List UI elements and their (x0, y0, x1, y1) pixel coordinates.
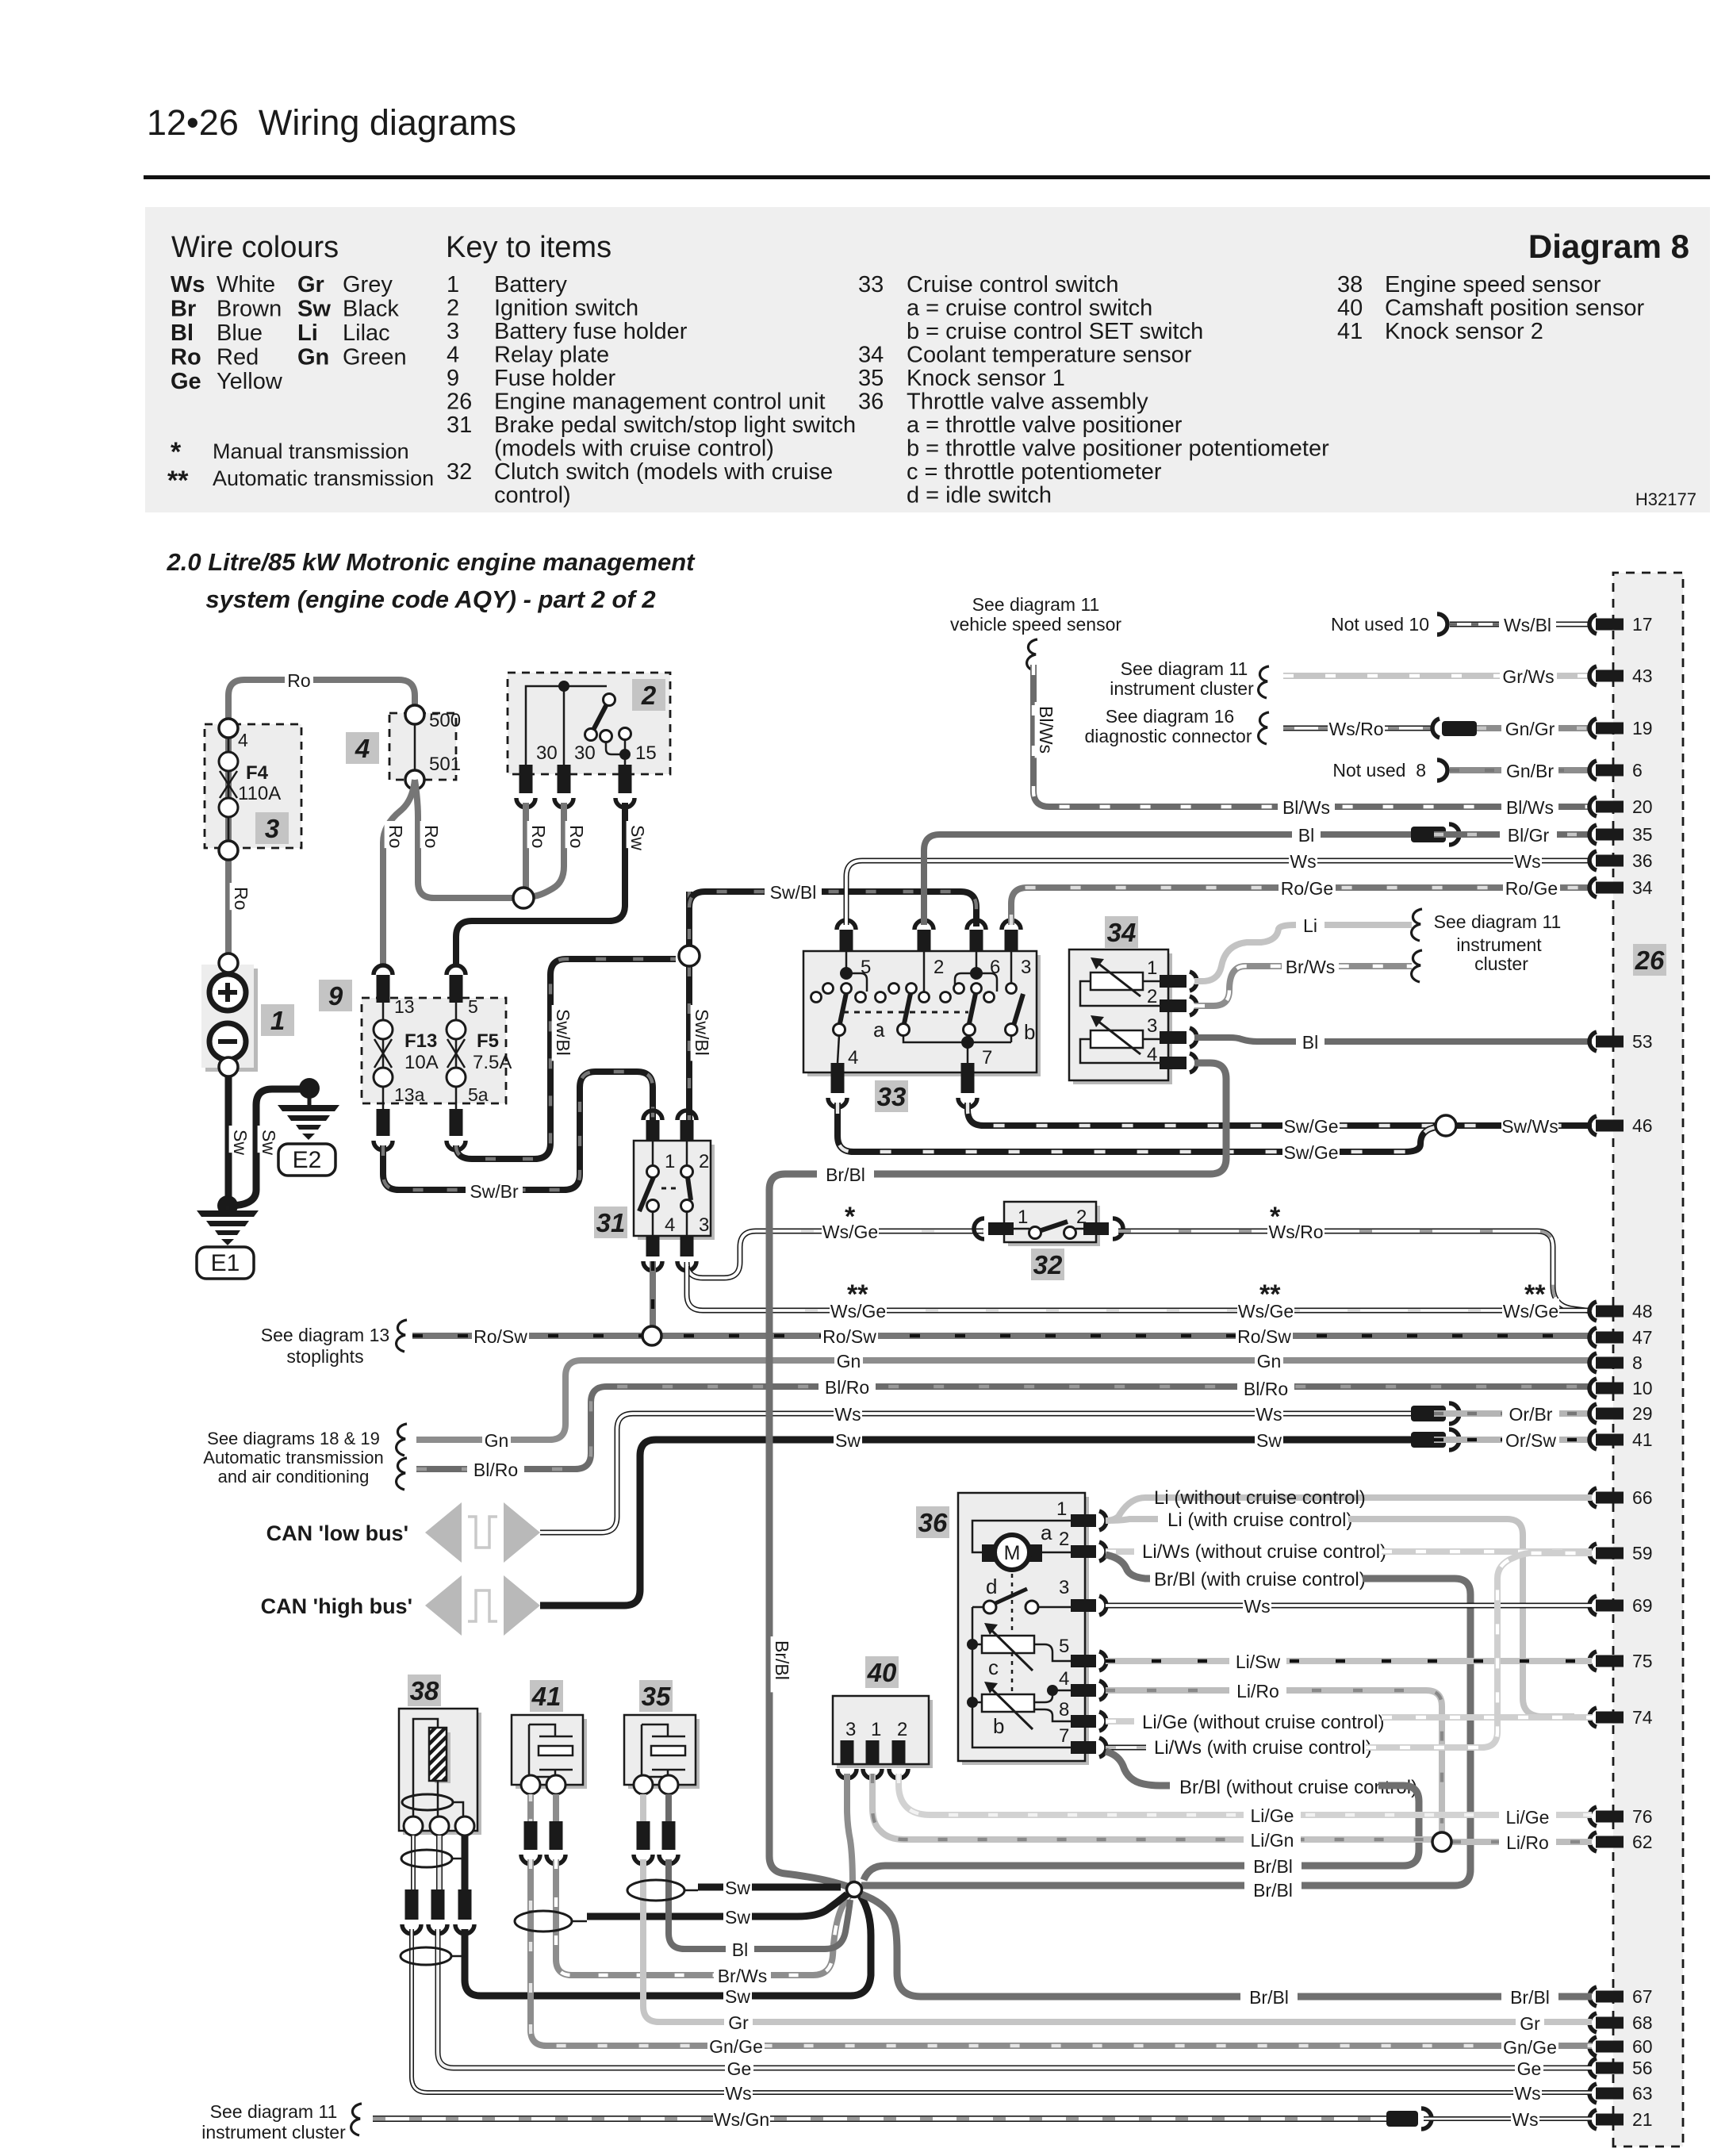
svg-text:501: 501 (429, 754, 461, 775)
wire Sw row1 35 shield to junction (698, 1884, 841, 1891)
svg-text:CAN 'high bus': CAN 'high bus' (261, 1594, 412, 1618)
svg-text:Li: Li (297, 320, 318, 346)
35 piezo symbol (642, 1724, 685, 1777)
svg-text:F13: F13 (404, 1030, 437, 1052)
svg-text:and air conditioning: and air conditioning (218, 1467, 370, 1487)
svg-text:system (engine code AQY) - par: system (engine code AQY) - part 2 of 2 (205, 585, 655, 613)
svg-text:Gn: Gn (1257, 1351, 1282, 1371)
svg-text:Br: Br (171, 297, 196, 322)
svg-text:41: 41 (531, 1682, 562, 1711)
ECU pin 35 (1589, 825, 1597, 844)
wire Sw/Bl horizontal to cruise switch 33 pin6 (689, 892, 976, 926)
svg-text:4: 4 (238, 730, 248, 750)
svg-text:Li/Ro: Li/Ro (1236, 1681, 1279, 1701)
svg-text:Brown: Brown (217, 297, 282, 322)
svg-text:34: 34 (1107, 918, 1137, 947)
wire Gn row to pin 8 (416, 1360, 1592, 1440)
svg-text:1: 1 (1056, 1498, 1067, 1520)
ECU pin 75 (1589, 1652, 1597, 1671)
svg-text:Bl/Ro: Bl/Ro (1244, 1379, 1288, 1399)
svg-text:1: 1 (447, 272, 459, 297)
wire Ws 36 pin3 to pin 69 (1106, 1603, 1592, 1609)
ECU pin 76 (1589, 1807, 1597, 1826)
wire Br/Bl 34 pin4 loop to junction bottom (769, 1063, 1226, 1886)
wire Br/Bl junction to pin 67 row (861, 1894, 1592, 1997)
svg-text:Ge: Ge (1517, 2058, 1542, 2079)
svg-text:34: 34 (858, 343, 884, 368)
svg-text:33: 33 (877, 1082, 907, 1111)
svg-text:4: 4 (1147, 1044, 1157, 1065)
svg-text:3: 3 (1059, 1577, 1069, 1598)
svg-text:diagnostic connector: diagnostic connector (1085, 726, 1252, 746)
wire Ro/Sw row stoplights to pin 47 (412, 1333, 1592, 1339)
svg-text:2: 2 (934, 957, 944, 978)
svg-text:Bl/Ro: Bl/Ro (825, 1377, 869, 1398)
svg-text:Gn/Ge: Gn/Ge (709, 2036, 763, 2057)
svg-text:Gn/Ge: Gn/Ge (1503, 2037, 1557, 2058)
38 shield ellipse inner (402, 1794, 453, 1810)
svg-text:Sw: Sw (1256, 1430, 1282, 1451)
svg-text:instrument cluster: instrument cluster (201, 2122, 346, 2143)
svg-text:41: 41 (1337, 319, 1363, 344)
svg-text:Sw/Bl: Sw/Bl (553, 1009, 573, 1056)
svg-text:cluster: cluster (1474, 953, 1528, 974)
36 pot b (982, 1694, 1034, 1712)
wire Ws/Ro* row right of 32 to pin 48 (1118, 1231, 1592, 1311)
svg-text:White: White (217, 272, 275, 297)
svg-text:Ws: Ws (1514, 2083, 1540, 2104)
svg-text:41: 41 (1632, 1429, 1653, 1450)
wire Sw/Bl F5 5a to Sw/Bl junction (456, 959, 676, 1159)
svg-text:67: 67 (1632, 1986, 1653, 2007)
svg-text:Brake pedal switch/stop light: Brake pedal switch/stop light switch (494, 412, 856, 438)
svg-text:38: 38 (1337, 272, 1363, 297)
ECU pin 68 (1589, 2013, 1597, 2032)
ECU pin 8 (1589, 1353, 1597, 1372)
svg-text:Bl/Ro: Bl/Ro (473, 1460, 518, 1480)
wire Bl/Ws speed sensor to row 20 (1033, 665, 1592, 807)
svg-text:62: 62 (1632, 1832, 1653, 1852)
wire Br/Bl without cc 36 pin7 to row 2352 (1106, 1751, 1170, 1786)
svg-text:Li/Ge: Li/Ge (1506, 1807, 1550, 1828)
svg-text:48: 48 (1632, 1301, 1653, 1322)
ECU pin 10 (1589, 1379, 1597, 1398)
svg-text:13: 13 (394, 996, 415, 1017)
svg-text:Br/Bl: Br/Bl (772, 1640, 792, 1680)
svg-text:b: b (1024, 1020, 1035, 1044)
svg-text:Bl: Bl (1298, 825, 1314, 846)
35 terminals (634, 1775, 653, 1794)
ECU pin 34 (1589, 878, 1597, 897)
svg-text:Ro/Ge: Ro/Ge (1281, 878, 1333, 899)
38 pin connectors (405, 1889, 419, 1920)
svg-text:Sw/Ge: Sw/Ge (1283, 1142, 1338, 1163)
svg-text:9: 9 (328, 981, 343, 1011)
svg-text:Yellow: Yellow (217, 369, 283, 394)
ECU pin 59 (1589, 1544, 1597, 1563)
battery box 1 (205, 969, 258, 1072)
38 shield ellipse lower (401, 1947, 451, 1965)
svg-text:3: 3 (699, 1214, 709, 1236)
svg-text:Ro/Ge: Ro/Ge (1505, 878, 1558, 899)
svg-text:Lilac: Lilac (343, 320, 390, 346)
svg-text:**: ** (1524, 1279, 1546, 1310)
wire 40 pin1 Li/Gn to junction 62 (872, 1774, 1432, 1840)
node Ro/Sw junction (642, 1326, 661, 1345)
svg-text:36: 36 (858, 389, 884, 415)
svg-text:vehicle speed sensor: vehicle speed sensor (950, 614, 1121, 635)
component box 36 throttle valve assembly (962, 1497, 1089, 1765)
svg-text:Manual transmission: Manual transmission (213, 439, 409, 463)
wire Li/Ws without cc 36 pin2 to pin 59 (1106, 1548, 1134, 1555)
svg-text:Black: Black (343, 297, 399, 322)
svg-text:Gr: Gr (297, 272, 324, 297)
wire Ro battery+ to relay plate 500 (228, 680, 415, 955)
ECU pin 17 (1589, 615, 1597, 634)
component box 31 brake pedal switch (638, 1145, 715, 1240)
svg-text:26: 26 (1635, 946, 1665, 975)
ground E1 (226, 1206, 230, 1210)
wire Sw/Ge 33 pin4 to node at 46 (838, 1103, 1436, 1152)
wire Ro fuse F4 link bottom (228, 817, 230, 841)
node Ro junction (513, 888, 534, 908)
wire Ro relay 501 to junction (415, 780, 514, 898)
fuse holder 9: F5 (447, 965, 466, 975)
svg-text:Sw: Sw (725, 1907, 750, 1928)
svg-text:Br/Bl: Br/Bl (1249, 1987, 1289, 2008)
svg-text:31: 31 (447, 412, 472, 438)
svg-text:Red: Red (217, 345, 259, 370)
svg-text:Li/Sw: Li/Sw (1236, 1652, 1281, 1672)
wire Ws row CAN low to pin 29 (540, 1414, 1411, 1533)
svg-text:Gn: Gn (837, 1351, 861, 1371)
svg-text:Ro: Ro (171, 345, 201, 370)
svg-text:Ro/Sw: Ro/Sw (822, 1326, 876, 1347)
svg-text:500: 500 (429, 710, 461, 731)
svg-text:Relay plate: Relay plate (494, 343, 609, 368)
svg-text:3: 3 (265, 814, 279, 843)
svg-text:40: 40 (1337, 296, 1363, 321)
svg-text:1: 1 (1147, 957, 1157, 979)
connector blob row 35 (1411, 827, 1446, 842)
svg-text:Green: Green (343, 345, 407, 370)
31 interior (653, 1141, 687, 1166)
svg-text:1: 1 (270, 1006, 285, 1035)
svg-text:Sw/Bl: Sw/Bl (692, 1009, 712, 1056)
svg-text:b = throttle valve positioner: b = throttle valve positioner potentiome… (907, 436, 1329, 462)
wire Bl row 35 to 33 pin2 (924, 834, 1411, 925)
svg-text:Sw: Sw (725, 1986, 750, 2007)
svg-text:Cruise control switch: Cruise control switch (907, 272, 1119, 297)
svg-text:Br/Ws: Br/Ws (718, 1966, 768, 1986)
svg-text:4: 4 (447, 343, 459, 368)
svg-text:31: 31 (596, 1208, 626, 1237)
ECU pin 63 (1589, 2084, 1597, 2103)
svg-text:53: 53 (1632, 1031, 1653, 1052)
svg-text:Ro: Ro (231, 887, 251, 910)
svg-text:12•26 Wiring diagrams: 12•26 Wiring diagrams (147, 102, 516, 143)
component box 41 knock sensor 2 (516, 1719, 587, 1789)
svg-text:Gr/Ws: Gr/Ws (1502, 666, 1554, 687)
svg-text:20: 20 (1632, 796, 1653, 817)
svg-text:Br/Bl: Br/Bl (1253, 1856, 1293, 1877)
svg-text:Sw/Ws: Sw/Ws (1501, 1116, 1558, 1137)
svg-text:17: 17 (1632, 614, 1653, 635)
38 wires to rows (412, 1929, 1592, 2093)
svg-text:Ro: Ro (528, 825, 549, 848)
41 wires + pins (527, 1794, 534, 1821)
ECU pin 67 (1589, 1987, 1597, 2006)
svg-text:Clutch switch (models with cru: Clutch switch (models with cruise (494, 459, 833, 485)
svg-text:**: ** (847, 1279, 868, 1310)
svg-text:15: 15 (635, 742, 657, 764)
svg-text:69: 69 (1632, 1595, 1653, 1616)
svg-text:3: 3 (447, 319, 459, 344)
svg-text:32: 32 (447, 459, 472, 485)
ECU pin 48 (1589, 1302, 1597, 1321)
svg-text:Sw/Bl: Sw/Bl (770, 882, 817, 903)
svg-text:110A: 110A (238, 783, 281, 804)
svg-text:Li/Gn: Li/Gn (1251, 1830, 1294, 1851)
svg-text:19: 19 (1632, 718, 1653, 738)
node battery fuse bottom (219, 841, 238, 860)
svg-text:3: 3 (1147, 1015, 1157, 1037)
svg-text:Or/Br: Or/Br (1509, 1404, 1553, 1425)
svg-text:Automatic transmission: Automatic transmission (213, 466, 434, 490)
svg-text:Li/Ws (without cruise control): Li/Ws (without cruise control) (1142, 1541, 1386, 1563)
svg-text:instrument: instrument (1456, 934, 1542, 955)
34 thermistor lower (1091, 1030, 1143, 1048)
ECU pin 46 (1589, 1116, 1597, 1135)
wire Ro/Sw 31 pin4 down to stoplight junction (650, 1261, 656, 1336)
36 pot c (982, 1636, 1034, 1653)
svg-text:Wire colours: Wire colours (171, 231, 339, 264)
svg-text:c: c (988, 1655, 999, 1679)
svg-text:control): control) (494, 483, 571, 508)
svg-text:d: d (986, 1575, 997, 1598)
svg-text:Br/Bl (with cruise control): Br/Bl (with cruise control) (1154, 1569, 1366, 1590)
ECU pin 41 (1589, 1430, 1597, 1449)
svg-text:7.5A: 7.5A (473, 1052, 512, 1073)
wire Sw row2 41 shield to junction (587, 1894, 847, 1916)
svg-text:(models with cruise control): (models with cruise control) (494, 436, 774, 462)
wire Li without cc 36 pin1 to pin 66 (1106, 1498, 1592, 1521)
svg-text:9: 9 (447, 366, 459, 391)
svg-text:60: 60 (1632, 2036, 1653, 2057)
wire Sw/Ge 33 pin7 to node and pin 46 (968, 1103, 1592, 1126)
svg-text:40: 40 (867, 1658, 897, 1687)
ECU pin 21 (1589, 2110, 1597, 2129)
svg-text:2: 2 (447, 296, 459, 321)
svg-text:See diagram 13: See diagram 13 (261, 1325, 389, 1345)
svg-text:Ro: Ro (421, 825, 442, 848)
svg-text:Bl: Bl (171, 320, 194, 346)
svg-text:Knock sensor 1: Knock sensor 1 (907, 366, 1065, 391)
svg-text:Br/Ws: Br/Ws (1286, 957, 1336, 977)
svg-text:56: 56 (1632, 2058, 1653, 2078)
svg-text:Br/Bl: Br/Bl (1253, 1880, 1293, 1901)
svg-text:Ws: Ws (834, 1404, 861, 1425)
svg-text:26: 26 (447, 389, 472, 415)
svg-text:66: 66 (1632, 1487, 1653, 1508)
svg-text:E2: E2 (293, 1147, 322, 1173)
svg-text:63: 63 (1632, 2083, 1653, 2104)
ECU pin 66 (1589, 1488, 1597, 1507)
33 top pins 5 2 6 3 (840, 930, 853, 951)
svg-text:Bl/Ws: Bl/Ws (1036, 706, 1056, 754)
svg-text:Sw: Sw (259, 1130, 279, 1155)
38 terminals (404, 1816, 423, 1836)
svg-text:2: 2 (897, 1719, 907, 1740)
38 wires below (411, 1836, 416, 1889)
svg-text:2: 2 (1076, 1207, 1087, 1228)
wire Bl 34 pin3 to pin 53 (1194, 1038, 1592, 1042)
svg-text:Li/Ge (without cruise control): Li/Ge (without cruise control) (1142, 1712, 1384, 1733)
svg-text:Li/Ro: Li/Ro (1506, 1832, 1549, 1853)
svg-text:1: 1 (665, 1151, 675, 1172)
wire Ws/Ge** 31 pin3 to row (687, 1266, 805, 1310)
svg-text:30: 30 (574, 742, 596, 764)
wire Or/Sw to pin 41 (1434, 1437, 1592, 1443)
svg-text:a = throttle valve positioner: a = throttle valve positioner (907, 412, 1183, 438)
bottom Ws/Gn row (373, 2116, 1386, 2122)
34 pins (right side) (1160, 975, 1187, 988)
svg-text:59: 59 (1632, 1543, 1653, 1563)
svg-text:Key to items: Key to items (446, 231, 611, 264)
wire Li with cc 36 pin1 to pin 74 (1106, 1519, 1158, 1521)
svg-text:Knock sensor 2: Knock sensor 2 (1385, 319, 1543, 344)
svg-text:Li (with cruise control): Li (with cruise control) (1167, 1510, 1352, 1531)
node junction 62 (1432, 1832, 1451, 1851)
32 interior blade (1014, 1228, 1083, 1230)
component box 38 engine speed sensor (403, 1713, 481, 1835)
svg-text:36: 36 (918, 1508, 948, 1537)
ECU pin 69 (1589, 1596, 1597, 1615)
svg-text:Ge: Ge (171, 369, 201, 394)
34 thermistor upper (1091, 973, 1143, 990)
svg-text:**: ** (1259, 1279, 1281, 1310)
ignition switch 2 interior (526, 686, 607, 765)
svg-text:2: 2 (1059, 1529, 1069, 1550)
svg-text:stoplights: stoplights (286, 1346, 363, 1367)
wire 40 pin2 Li/Ge to pin 76 (899, 1774, 1592, 1815)
ECU pin 19 (1589, 719, 1597, 738)
wire Sw battery- to E1 ground (225, 1076, 232, 1206)
svg-text:CAN 'low bus': CAN 'low bus' (266, 1521, 408, 1545)
svg-text:Fuse holder: Fuse holder (494, 366, 615, 391)
svg-text:instrument cluster: instrument cluster (1110, 678, 1254, 699)
wire Ws/Ge** row to pin 48 (805, 1308, 1592, 1314)
svg-text:Ws: Ws (171, 272, 205, 297)
svg-text:Gr: Gr (728, 2012, 749, 2033)
svg-text:Li (without cruise control): Li (without cruise control) (1154, 1487, 1366, 1509)
svg-text:35: 35 (642, 1682, 671, 1711)
ECU pin 62 (1589, 1832, 1597, 1851)
wire Ws/Ge* row left (801, 1229, 983, 1234)
svg-text:Battery fuse holder: Battery fuse holder (494, 319, 688, 344)
31 pins (646, 1120, 660, 1141)
svg-text:75: 75 (1632, 1651, 1653, 1671)
41 terminals (521, 1775, 540, 1794)
33 bottom pins 4 7 (831, 1063, 845, 1093)
svg-text:See diagram 11: See diagram 11 (1434, 911, 1562, 932)
wire Ws row 36 to 33 pin5 (846, 861, 1592, 925)
wire Li/Ws with cc 36 pin7 to pin 59 merge (1106, 1745, 1146, 1751)
battery 1 symbols (219, 953, 238, 973)
svg-text:13a: 13a (394, 1084, 425, 1105)
wire Or/Br to pin 29 (1434, 1410, 1592, 1417)
wire Ro ignition 30a to junction (523, 803, 529, 893)
svg-text:36: 36 (1632, 850, 1653, 871)
svg-text:Li/Ws (with cruise control): Li/Ws (with cruise control) (1154, 1737, 1372, 1759)
svg-text:Li/Ge: Li/Ge (1251, 1805, 1294, 1826)
svg-text:4: 4 (1059, 1668, 1069, 1690)
41 wires to rows: Gn/Ge + Br/Ws (531, 1859, 1592, 2046)
svg-text:Ro/Sw: Ro/Sw (1237, 1326, 1291, 1347)
wire Li/Sw 36 pin5 to pin 75 (1106, 1658, 1592, 1664)
svg-text:See diagram 16: See diagram 16 (1106, 706, 1234, 727)
svg-text:76: 76 (1632, 1806, 1653, 1827)
svg-text:43: 43 (1632, 666, 1653, 686)
svg-text:Bl/Ws: Bl/Ws (1506, 797, 1554, 818)
component box 34 coolant temperature sensor (1073, 953, 1172, 1084)
svg-text:Sw: Sw (725, 1878, 750, 1898)
svg-text:38: 38 (410, 1676, 439, 1705)
svg-text:5: 5 (1059, 1636, 1069, 1657)
relay plate nodes 500/501 (414, 715, 416, 780)
svg-text:2.0 Litre/85 kW Motronic engin: 2.0 Litre/85 kW Motronic engine manageme… (167, 548, 696, 576)
component box 32 (1008, 1206, 1100, 1246)
node ground junction (217, 1195, 238, 1216)
svg-text:Battery: Battery (494, 272, 567, 297)
wire Ro fuse box3 to battery + (225, 860, 232, 955)
wire Bl/Gr to pin 35 (1434, 831, 1592, 838)
svg-text:47: 47 (1632, 1327, 1653, 1348)
svg-text:Bl: Bl (1302, 1032, 1318, 1053)
svg-text:Gr: Gr (1520, 2013, 1540, 2034)
svg-text:Not used 8: Not used 8 (1332, 760, 1426, 781)
svg-text:2: 2 (641, 681, 657, 710)
svg-text:See diagram 11: See diagram 11 (972, 594, 1100, 615)
svg-text:b = cruise control SET switch: b = cruise control SET switch (907, 319, 1203, 344)
ECU pin 74 (1589, 1708, 1597, 1727)
svg-text:See diagrams 18 & 19: See diagrams 18 & 19 (207, 1429, 380, 1448)
svg-text:21: 21 (1632, 2109, 1653, 2130)
svg-text:Bl/Ws: Bl/Ws (1282, 797, 1330, 818)
svg-text:Ws/Ro: Ws/Ro (1329, 719, 1384, 739)
svg-text:Ws/Gn: Ws/Gn (714, 2109, 769, 2130)
svg-text:See diagram 11: See diagram 11 (210, 2101, 338, 2122)
svg-text:2: 2 (1147, 986, 1157, 1007)
svg-text:Camshaft position sensor: Camshaft position sensor (1385, 296, 1645, 321)
svg-text:1: 1 (1018, 1207, 1028, 1228)
svg-text:3: 3 (1021, 957, 1031, 978)
ECU pin 56 (1589, 2058, 1597, 2077)
svg-text:Li: Li (1303, 915, 1317, 936)
svg-text:29: 29 (1632, 1403, 1653, 1424)
35 wires to rows: Gr + Bl (643, 1859, 1592, 2022)
svg-text:7: 7 (982, 1047, 992, 1068)
svg-text:M: M (1004, 1542, 1021, 1564)
wire Br/Bl with cc 36 pin2 down to junction row (1106, 1555, 1150, 1579)
svg-text:Ro: Ro (385, 825, 406, 848)
svg-text:Br/Bl: Br/Bl (1510, 1987, 1550, 2008)
svg-text:Or/Sw: Or/Sw (1505, 1430, 1556, 1451)
svg-text:See diagram 11: See diagram 11 (1121, 658, 1248, 679)
33 interior contact rows (845, 951, 848, 968)
svg-text:4: 4 (665, 1214, 675, 1236)
svg-text:6: 6 (1632, 760, 1643, 781)
